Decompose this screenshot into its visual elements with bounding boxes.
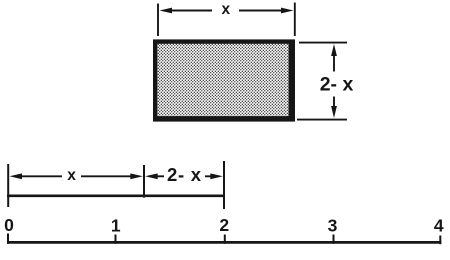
top dimension line with arrows (width x) (160, 8, 294, 14)
numeral 2 (219, 215, 229, 235)
svg-text:x: x (67, 167, 76, 184)
tick 0 (7, 234, 9, 244)
label x (lower dimension) (67, 167, 76, 184)
svg-text:3: 3 (328, 216, 338, 236)
tick 3 (333, 235, 335, 244)
lower figure: extension line at point x (143, 165, 145, 198)
label 2-x (right) (320, 74, 354, 96)
right dimension line with arrows (height 2-x) (331, 44, 337, 118)
svg-text:2- x: 2- x (167, 164, 202, 185)
label x (top) (221, 1, 230, 18)
svg-text:0: 0 (4, 215, 14, 235)
number line (7, 241, 441, 244)
numeral 1 (111, 216, 121, 236)
label 2-x (lower dimension) (167, 164, 202, 185)
svg-text:2: 2 (219, 215, 229, 235)
numeral 0 (4, 215, 14, 235)
top dimension extension line left (157, 4, 159, 37)
numeral 4 (434, 216, 444, 236)
lower figure: extension line at 2 (223, 161, 225, 209)
tick 1 (115, 235, 117, 244)
right dimension extension line top (299, 42, 347, 44)
segment bracket line from 0 to 2 (7, 195, 225, 198)
shaded rectangle (155, 42, 293, 120)
svg-text:4: 4 (434, 216, 444, 236)
tick 2 (224, 235, 226, 244)
lower dimension x with arrows (10, 173, 143, 179)
lower dimension 2-x with arrows (145, 173, 223, 179)
numeral 3 (328, 216, 338, 236)
svg-text:1: 1 (111, 216, 121, 236)
lower figure: extension line at 0 (7, 164, 9, 207)
right dimension extension line bottom (297, 119, 347, 121)
svg-text:2- x: 2- x (320, 74, 354, 96)
svg-text:x: x (221, 1, 230, 18)
tick 4 (439, 236, 441, 245)
top dimension extension line right (294, 3, 296, 37)
